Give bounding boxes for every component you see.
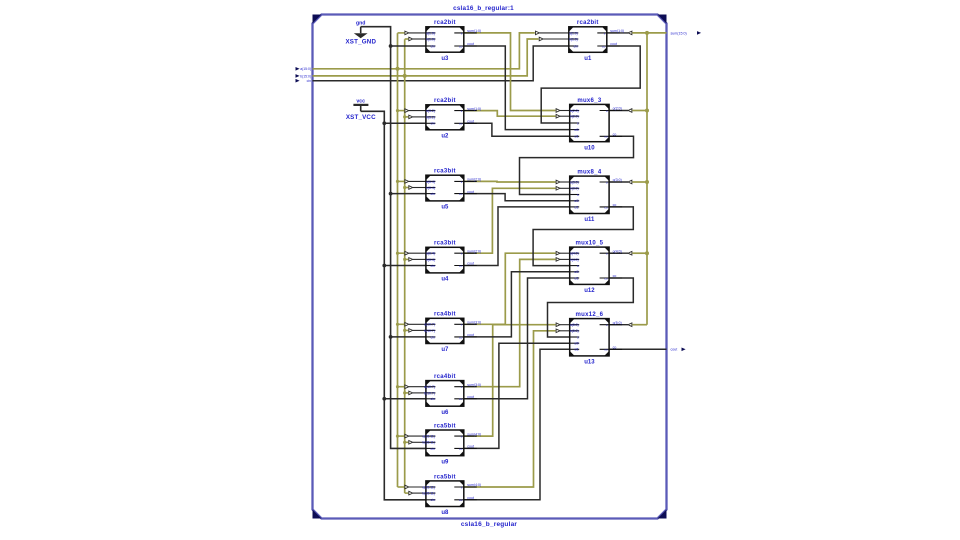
svg-text:cout: cout <box>610 42 617 46</box>
wire u7.cout to u12 <box>464 272 570 337</box>
block u4 (rca3bit) <box>426 241 481 283</box>
svg-text:ci0: ci0 <box>574 199 578 203</box>
pin u8.cin <box>426 499 435 501</box>
pin u6.b(10:7) <box>426 392 435 394</box>
pin u2.cin <box>426 122 435 124</box>
block u10 (mux6_3) <box>570 98 622 152</box>
svg-text:co: co <box>613 203 617 207</box>
svg-text:u6: u6 <box>441 410 449 416</box>
svg-text:csla16_b_regular:1: csla16_b_regular:1 <box>453 5 514 12</box>
wire a tap to u7 <box>398 323 405 325</box>
svg-text:XST_VCC: XST_VCC <box>346 114 376 121</box>
pin u1.b(1:0) <box>569 38 578 40</box>
block u11 (mux8_4) <box>570 170 622 224</box>
wire gnd net <box>361 27 426 449</box>
block u3 (rca2bit) <box>426 20 481 62</box>
svg-text:mux10_5: mux10_5 <box>576 241 604 247</box>
svg-text:cin: cin <box>431 335 435 339</box>
node gnd junction u3 <box>389 44 393 48</box>
pin u11.s <box>570 194 579 196</box>
svg-text:cout: cout <box>467 496 474 500</box>
svg-text:u13: u13 <box>584 360 595 366</box>
pin u10.co <box>600 135 623 137</box>
wire u8.cout to u13 <box>464 349 570 500</box>
pin u12.s <box>570 265 579 267</box>
wire u2.cout to u10 <box>464 123 570 136</box>
node a trunk tap u5 <box>396 180 399 183</box>
node gnd junction u7 <box>389 335 393 339</box>
svg-text:cin: cin <box>431 192 435 196</box>
svg-text:cout: cout <box>467 395 474 399</box>
svg-text:csla16_b_regular: csla16_b_regular <box>461 521 518 528</box>
svg-text:b(15:0): b(15:0) <box>300 74 311 78</box>
svg-text:u8: u8 <box>441 510 449 516</box>
node gnd junction u5 <box>389 192 393 196</box>
pin u8.sum(4:0) <box>454 486 477 488</box>
pin u3.cout <box>454 45 477 47</box>
svg-text:co: co <box>459 397 463 401</box>
pin u1.a(1:0) <box>569 32 578 34</box>
block u2 (rca2bit) <box>426 98 481 139</box>
pin u3.sum(1:0) <box>454 32 477 34</box>
block u7 (rca4bit) <box>424 312 481 353</box>
pin u11.ci1 <box>570 206 579 208</box>
wire vcc tap to u4.cin <box>384 265 426 267</box>
svg-text:o: o <box>606 252 608 256</box>
svg-text:sum(1:0): sum(1:0) <box>467 29 481 33</box>
svg-text:co: co <box>459 44 463 48</box>
svg-text:cin: cin <box>431 44 435 48</box>
pin u11.a(3:0) <box>570 181 579 183</box>
wire vcc net <box>361 111 426 500</box>
wire u12.cout to u13 select <box>548 278 634 337</box>
pin u12.o(4:0) <box>600 252 623 254</box>
svg-text:cin: cin <box>431 397 435 401</box>
node sum trunk junction u10 <box>645 109 649 113</box>
svg-text:cin: cin <box>431 264 435 268</box>
svg-text:co: co <box>613 274 617 278</box>
node b trunk tap u4 <box>403 258 406 261</box>
wire u4.cout to u11 <box>464 207 570 266</box>
svg-text:sum(4:0): sum(4:0) <box>467 432 481 436</box>
pin u5.cin <box>426 193 435 195</box>
pin u7.cout <box>454 336 477 338</box>
svg-text:rca2bit: rca2bit <box>434 98 456 104</box>
wire vcc tap to u2.cin <box>384 122 426 124</box>
wire cin input net <box>313 46 569 81</box>
block u9 (rca5bit) <box>423 423 482 465</box>
svg-text:a(1:0): a(1:0) <box>569 31 578 35</box>
wire b tap to u6 <box>405 392 409 394</box>
power symbol XST_VCC <box>346 99 376 122</box>
pin u7.cin <box>426 336 435 338</box>
svg-text:rca3bit: rca3bit <box>434 241 456 247</box>
wire gnd tap to u3.cin <box>391 45 426 47</box>
wire u6.sum to u12.b <box>464 259 556 386</box>
svg-text:cin: cin <box>431 498 435 502</box>
pin u9.cin <box>426 447 435 449</box>
svg-text:a(15:11): a(15:11) <box>423 435 435 439</box>
pin u6.sum(3:0) <box>454 386 477 388</box>
svg-text:b(15:11): b(15:11) <box>423 492 435 496</box>
svg-text:cin: cin <box>431 447 435 451</box>
svg-text:a(4:0): a(4:0) <box>570 252 579 256</box>
svg-text:b(1:0): b(1:0) <box>569 37 578 41</box>
pin u9.a(15:11) <box>426 435 435 437</box>
svg-text:cout: cout <box>671 348 678 352</box>
svg-text:u1: u1 <box>584 56 592 62</box>
svg-text:b(4:0): b(4:0) <box>570 258 579 262</box>
wire u12.o to sum trunk <box>609 252 628 254</box>
pin u2.cout <box>454 122 477 124</box>
wire u10.o to sum trunk <box>609 110 628 112</box>
wire u10.cout to u11 select <box>520 136 634 194</box>
svg-text:s: s <box>577 193 579 197</box>
svg-text:o(4:0): o(4:0) <box>613 249 622 253</box>
output port sum(15:0) <box>671 31 702 35</box>
svg-text:co: co <box>459 447 463 451</box>
pin u5.b(6:4) <box>426 187 435 189</box>
block u13 (mux12_6) <box>570 312 622 366</box>
wire gnd tap to u7.cin <box>391 336 426 338</box>
svg-text:co: co <box>604 348 608 352</box>
pin u3.b(1:0) <box>426 38 435 40</box>
pin u9.sum(4:0) <box>454 435 477 437</box>
svg-text:b(6:4): b(6:4) <box>426 186 435 190</box>
wire u1.cout to u10 select <box>541 46 640 123</box>
pin u12.co <box>600 277 623 279</box>
svg-text:rca3bit: rca3bit <box>434 169 456 175</box>
node sum trunk junction u11 <box>645 180 649 184</box>
pin u4.cin <box>426 265 435 267</box>
node vcc junction u4 <box>382 264 386 268</box>
wire u13.cout to output port <box>609 348 666 350</box>
pin u6.cout <box>454 398 477 400</box>
svg-text:sum(1:0): sum(1:0) <box>467 107 481 111</box>
wire u5.cout to u11 <box>464 194 570 201</box>
wire u6.cout to u12 <box>464 278 570 399</box>
wire a tap to u6 <box>398 386 405 388</box>
svg-text:a(10:7): a(10:7) <box>424 385 435 389</box>
pin u5.a(6:4) <box>426 180 435 182</box>
pin u8.cout <box>454 499 477 501</box>
svg-text:a(15:0): a(15:0) <box>300 67 311 71</box>
svg-text:ci0: ci0 <box>574 342 578 346</box>
pin u12.ci0 <box>570 271 579 273</box>
wire u13.o to sum trunk <box>609 324 628 326</box>
pin u4.b(6:4) <box>426 258 435 260</box>
wire u3.cout to u10 <box>464 46 570 130</box>
svg-text:sum(15:0): sum(15:0) <box>671 31 687 35</box>
pin u2.b(3:2) <box>426 116 435 118</box>
svg-text:mux8_4: mux8_4 <box>577 170 602 176</box>
pin u13.a(5:0) <box>570 324 579 326</box>
svg-text:o: o <box>606 180 608 184</box>
svg-text:a(3:2): a(3:2) <box>426 109 435 113</box>
wire a distribution trunk <box>397 33 399 487</box>
svg-text:ci0: ci0 <box>574 128 578 132</box>
node a trunk tap u7 <box>396 323 399 326</box>
wire u2.sum to u10.b <box>464 111 556 117</box>
node b trunk tap u2 <box>403 115 406 118</box>
input port cin <box>296 79 312 83</box>
svg-text:sum(4:0): sum(4:0) <box>467 483 481 487</box>
pin u10.a(2:0) <box>570 110 579 112</box>
svg-text:cout: cout <box>467 445 474 449</box>
svg-text:o(2:0): o(2:0) <box>613 107 622 111</box>
node sum trunk junction u12 <box>645 251 649 255</box>
svg-text:o(5:0): o(5:0) <box>613 321 622 325</box>
svg-text:u3: u3 <box>441 56 449 62</box>
svg-text:b(15:11): b(15:11) <box>423 441 435 445</box>
svg-text:cin: cin <box>307 79 311 83</box>
wire b tap to u2 <box>405 116 409 118</box>
pin u6.a(10:7) <box>426 386 435 388</box>
svg-text:ci0: ci0 <box>574 270 578 274</box>
node a trunk tap u4 <box>396 252 399 255</box>
pin u8.b(15:11) <box>426 492 435 494</box>
svg-text:b(2:0): b(2:0) <box>570 115 579 119</box>
svg-text:mux6_3: mux6_3 <box>577 98 602 104</box>
pin u13.co <box>600 348 623 350</box>
svg-text:co: co <box>613 133 617 137</box>
svg-text:co: co <box>459 498 463 502</box>
wire a tap to u4 <box>398 252 405 254</box>
svg-text:b(5:0): b(5:0) <box>570 329 579 333</box>
svg-text:co: co <box>459 264 463 268</box>
wire b tap to u9 <box>405 441 409 443</box>
node b bus junction <box>403 74 407 78</box>
output port cout <box>671 348 686 352</box>
svg-text:u11: u11 <box>584 217 595 223</box>
wire b(15:0) input bus <box>313 39 539 76</box>
svg-text:sum(2:0): sum(2:0) <box>467 249 481 253</box>
wire u9.sum to u13.a <box>464 325 556 436</box>
svg-text:a(2:0): a(2:0) <box>570 109 579 113</box>
pin u5.sum(2:0) <box>454 180 477 182</box>
pin u12.ci1 <box>570 277 579 279</box>
svg-text:s: s <box>577 121 579 125</box>
pin u4.cout <box>454 265 477 267</box>
wire a tap to u5 <box>398 180 405 182</box>
block u1 (rca2bit) <box>569 20 624 62</box>
svg-text:ci1: ci1 <box>574 348 578 352</box>
node b trunk tap u9 <box>403 441 406 444</box>
svg-text:rca2bit: rca2bit <box>434 20 456 26</box>
svg-text:co: co <box>459 335 463 339</box>
svg-text:rca4bit: rca4bit <box>434 312 456 318</box>
wire a bus stub to u1 <box>539 32 568 34</box>
pin u7.a(10:7) <box>426 323 435 325</box>
pin u13.ci1 <box>570 348 579 350</box>
svg-text:b(1:0): b(1:0) <box>426 37 435 41</box>
svg-text:ci1: ci1 <box>574 135 578 139</box>
svg-text:vcc: vcc <box>356 99 365 105</box>
svg-text:u9: u9 <box>441 459 449 465</box>
pin u11.b(3:0) <box>570 187 579 189</box>
wire u4.sum to u11.b <box>464 188 556 253</box>
svg-text:u2: u2 <box>441 133 449 139</box>
node a trunk tap u9 <box>396 435 399 438</box>
svg-text:sum(3:0): sum(3:0) <box>467 383 481 387</box>
svg-text:co: co <box>602 44 606 48</box>
svg-text:o(3:0): o(3:0) <box>613 178 622 182</box>
svg-text:a(1:0): a(1:0) <box>426 31 435 35</box>
svg-text:sum(2:0): sum(2:0) <box>467 178 481 182</box>
svg-text:cout: cout <box>467 120 474 124</box>
pin u1.cout <box>597 45 620 47</box>
wire a tap to u2 <box>398 110 405 112</box>
block u6 (rca4bit) <box>424 374 481 416</box>
pin u2.a(3:2) <box>426 110 435 112</box>
svg-text:u7: u7 <box>441 347 449 353</box>
wire a(15:0) input bus <box>313 33 535 69</box>
wire b tap to u5 <box>405 187 409 189</box>
svg-text:b(6:4): b(6:4) <box>426 258 435 262</box>
svg-text:a(6:4): a(6:4) <box>426 180 435 184</box>
node a bus junction <box>396 67 400 71</box>
wire u1.sum to output port <box>607 32 628 34</box>
pin u4.sum(2:0) <box>454 252 477 254</box>
wire gnd tap to u5.cin <box>391 193 426 195</box>
svg-text:u10: u10 <box>584 145 595 151</box>
svg-text:u12: u12 <box>584 288 595 294</box>
wire u7.sum to u12.a <box>464 253 556 324</box>
node vcc junction u6 <box>382 397 386 401</box>
pin u12.a(4:0) <box>570 252 579 254</box>
node vcc junction u2 <box>382 121 386 125</box>
node a trunk tap u6 <box>396 385 399 388</box>
pin u11.co <box>600 206 623 208</box>
svg-text:rca5bit: rca5bit <box>434 474 456 480</box>
svg-text:a(3:0): a(3:0) <box>570 180 579 184</box>
wire u5.sum to u11.a <box>464 180 556 183</box>
wire b tap to u3 <box>405 38 409 40</box>
input port a(15:0) <box>296 67 312 71</box>
pin u8.a(15:11) <box>426 486 435 488</box>
pin u13.ci0 <box>570 342 579 344</box>
sheet border frame <box>313 15 667 519</box>
svg-text:s: s <box>577 264 579 268</box>
svg-text:cin: cin <box>431 122 435 126</box>
svg-text:rca2bit: rca2bit <box>577 20 599 26</box>
svg-text:rca4bit: rca4bit <box>434 374 456 380</box>
svg-text:co: co <box>459 122 463 126</box>
svg-text:co: co <box>613 346 617 350</box>
pin u10.ci1 <box>570 135 579 137</box>
svg-text:co: co <box>604 135 608 139</box>
svg-text:u5: u5 <box>441 205 449 211</box>
pin u11.o(3:0) <box>600 181 623 183</box>
block u12 (mux10_5) <box>570 241 622 295</box>
block u5 (rca3bit) <box>426 169 481 211</box>
wire a tap to u8 <box>398 486 405 488</box>
svg-text:a(10:7): a(10:7) <box>424 323 435 327</box>
pin u13.o(5:0) <box>600 324 623 326</box>
svg-text:mux12_6: mux12_6 <box>576 312 604 318</box>
svg-text:b(3:2): b(3:2) <box>426 115 435 119</box>
wire u9.cout to u13 <box>464 343 570 448</box>
wire u11.cout to u12 select <box>533 207 633 266</box>
svg-text:o: o <box>606 109 608 113</box>
wire sum collection trunk <box>646 33 648 325</box>
input port b(15:0) <box>296 74 312 78</box>
svg-text:co: co <box>604 276 608 280</box>
pin u2.sum(1:0) <box>454 110 477 112</box>
svg-text:cout: cout <box>467 262 474 266</box>
wire b bus stub to u1 <box>543 38 569 40</box>
pin u13.s <box>570 336 579 338</box>
svg-text:b(3:0): b(3:0) <box>570 187 579 191</box>
node b trunk tap u5 <box>403 186 406 189</box>
wire u8.sum to u13.b <box>464 331 556 487</box>
pin u7.b(10:7) <box>426 329 435 331</box>
pin u11.ci0 <box>570 200 579 202</box>
svg-text:gnd: gnd <box>356 21 366 27</box>
pin u7.sum(3:0) <box>454 323 477 325</box>
svg-text:b(10:7): b(10:7) <box>424 329 435 333</box>
pin u3.cin <box>426 45 435 47</box>
svg-text:sum(1:0): sum(1:0) <box>610 29 624 33</box>
pin u10.o(2:0) <box>600 110 623 112</box>
svg-text:XST_GND: XST_GND <box>345 38 376 45</box>
svg-text:ci1: ci1 <box>574 205 578 209</box>
svg-text:u4: u4 <box>441 277 449 283</box>
block u8 (rca5bit) <box>423 474 482 516</box>
svg-text:sum(3:0): sum(3:0) <box>467 321 481 325</box>
svg-text:s: s <box>577 335 579 339</box>
svg-text:cout: cout <box>467 190 474 194</box>
svg-text:cin: cin <box>573 44 577 48</box>
pin u9.cout <box>454 447 477 449</box>
ground symbol XST_GND <box>345 21 376 46</box>
pin u13.b(5:0) <box>570 330 579 332</box>
svg-text:a(6:4): a(6:4) <box>426 252 435 256</box>
svg-text:o: o <box>606 323 608 327</box>
svg-text:ci1: ci1 <box>574 276 578 280</box>
svg-text:co: co <box>604 205 608 209</box>
svg-text:a(5:0): a(5:0) <box>570 323 579 327</box>
node b trunk tap u6 <box>403 391 406 394</box>
pin u1.sum(1:0) <box>597 32 620 34</box>
node b trunk tap u7 <box>403 329 406 332</box>
wire a tap to u9 <box>398 435 405 437</box>
pin u9.b(15:11) <box>426 441 435 443</box>
pin u1.cin <box>569 45 578 47</box>
wire b distribution trunk <box>404 39 406 493</box>
wire a tap to u3 <box>398 32 405 34</box>
wire u3.sum to u10.a <box>464 33 556 111</box>
pin u10.b(2:0) <box>570 115 579 117</box>
wire u11.o to sum trunk <box>609 181 628 183</box>
wire b tap to u8 <box>405 492 409 494</box>
svg-text:co: co <box>459 192 463 196</box>
wire b tap to u4 <box>405 258 409 260</box>
pin u10.s <box>570 122 579 124</box>
svg-text:cout: cout <box>467 333 474 337</box>
pin u12.b(4:0) <box>570 258 579 260</box>
wire b tap to u7 <box>405 329 409 331</box>
pin u5.cout <box>454 193 477 195</box>
node a trunk tap u2 <box>396 109 399 112</box>
svg-text:cout: cout <box>467 42 474 46</box>
svg-text:a(15:11): a(15:11) <box>423 485 435 489</box>
node sum trunk top junction <box>645 31 649 35</box>
pin u3.a(1:0) <box>426 32 435 34</box>
pin u6.cin <box>426 398 435 400</box>
pin u4.a(6:4) <box>426 252 435 254</box>
svg-text:b(10:7): b(10:7) <box>424 391 435 395</box>
